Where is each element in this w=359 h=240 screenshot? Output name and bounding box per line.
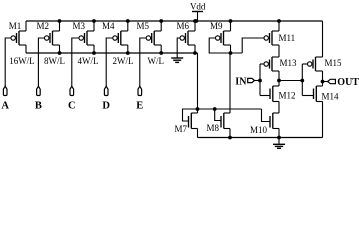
wire Vdd top rail bbox=[26, 20, 323, 22]
svg-text:M1: M1 bbox=[9, 21, 22, 31]
junction IN / inverter-1 input bbox=[258, 79, 262, 83]
transistor M9 (PMOS, diode-connected) bbox=[210, 21, 231, 53]
svg-text:C: C bbox=[68, 101, 76, 112]
wire inverter-2 input line bbox=[302, 64, 313, 96]
svg-text:M9: M9 bbox=[210, 21, 223, 31]
transistor M11 (PMOS mirror) bbox=[264, 21, 295, 45]
wire gate of M4 to input D bbox=[106, 38, 113, 86]
svg-text:Vdd: Vdd bbox=[190, 2, 206, 12]
wire inverter-1 input line bbox=[260, 64, 270, 96]
junction M3 drain / summing rail bbox=[92, 51, 96, 55]
svg-text:M5: M5 bbox=[137, 21, 150, 31]
junction M8 gate / mirror rail bbox=[213, 107, 217, 111]
transistor M2 (PMOS) bbox=[37, 21, 60, 53]
transistor M7 (NMOS, diode-connected) bbox=[175, 113, 198, 138]
junction M3 source / Vdd rail bbox=[92, 19, 96, 23]
transistor M6 (PMOS) bbox=[177, 21, 196, 53]
wire M9 gate-drain loop bbox=[209, 38, 242, 53]
svg-text:D: D bbox=[102, 101, 110, 112]
wire summing-node rail (DAC output) bbox=[26, 52, 198, 54]
junction M5 drain / summing rail bbox=[159, 51, 163, 55]
svg-text:M11: M11 bbox=[279, 33, 296, 43]
transistor M4 (PMOS) bbox=[102, 21, 128, 53]
transistor M5 (PMOS) bbox=[137, 21, 162, 53]
svg-text:E: E bbox=[136, 101, 143, 112]
terminal A bbox=[1, 86, 9, 111]
transistor M3 (PMOS) bbox=[73, 21, 95, 53]
transistor M13 (PMOS, inverter 1) bbox=[264, 57, 297, 81]
junction M7 drain / mirror rail bbox=[196, 107, 200, 111]
junction M10 source / ground rail bbox=[277, 136, 281, 140]
terminal B bbox=[35, 86, 42, 111]
svg-text:A: A bbox=[1, 101, 9, 112]
svg-text:W/L: W/L bbox=[148, 56, 165, 66]
wire gate of M5 to input E bbox=[140, 38, 146, 86]
svg-text:M3: M3 bbox=[73, 21, 86, 31]
junction inverter-2 input tap bbox=[300, 79, 304, 83]
terminal OUT bbox=[323, 77, 359, 88]
svg-text:M7: M7 bbox=[175, 124, 188, 134]
transistor M1 (PMOS) bbox=[9, 21, 26, 53]
svg-text:8W/L: 8W/L bbox=[44, 56, 65, 66]
terminal IN bbox=[235, 76, 260, 87]
junction M11 source / Vdd rail bbox=[277, 19, 281, 23]
wire M9 drain node to M11 gate bbox=[242, 38, 264, 53]
junction M6 source / Vdd rail bbox=[193, 19, 197, 23]
wire gate of M3 to input C bbox=[72, 38, 79, 86]
wire gate of M1 to input A bbox=[5, 38, 11, 86]
svg-text:M15: M15 bbox=[325, 58, 343, 68]
wire gate of M6 to ground bbox=[177, 38, 180, 58]
transistor M15 (PMOS, inverter 2) bbox=[308, 21, 343, 82]
junction M4 drain / summing rail bbox=[126, 51, 130, 55]
junction M6 drain / summing rail bbox=[193, 51, 197, 55]
svg-text:M12: M12 bbox=[279, 91, 296, 101]
svg-text:OUT: OUT bbox=[337, 77, 359, 88]
junction M9 source / Vdd rail bbox=[229, 19, 233, 23]
terminal D bbox=[102, 86, 110, 111]
wire ground rail (sources of M7 M8 M10 M14) bbox=[198, 137, 323, 139]
svg-text:M8: M8 bbox=[207, 123, 220, 133]
value label 8W/L bbox=[44, 56, 65, 66]
wire summing rail down to M7 drain bbox=[197, 53, 199, 113]
svg-text:M2: M2 bbox=[37, 21, 50, 31]
junction Vdd / rail / M6 source bbox=[194, 19, 198, 23]
ground (M6 gate) bbox=[171, 58, 183, 62]
transistor M10 (NMOS mirror) bbox=[250, 113, 279, 138]
wire M10 gate from mirror rail bbox=[262, 109, 271, 122]
transistor M14 (NMOS, inverter 2) bbox=[314, 82, 340, 138]
svg-text:2W/L: 2W/L bbox=[113, 56, 134, 66]
svg-text:4W/L: 4W/L bbox=[78, 56, 99, 66]
svg-text:M4: M4 bbox=[102, 21, 115, 31]
svg-text:M14: M14 bbox=[322, 92, 340, 102]
terminal E bbox=[136, 86, 143, 111]
svg-text:16W/L: 16W/L bbox=[9, 56, 35, 66]
junction M2 source / Vdd rail bbox=[58, 19, 62, 23]
svg-text:B: B bbox=[35, 101, 42, 112]
wire gate of M2 to input B bbox=[38, 38, 44, 86]
terminal C bbox=[68, 86, 76, 111]
value label 2W/L bbox=[113, 56, 134, 66]
svg-text:M6: M6 bbox=[177, 21, 190, 31]
junction M4 source / Vdd rail bbox=[126, 19, 130, 23]
junction M9 drain node bbox=[229, 51, 233, 55]
value label 16W/L bbox=[9, 56, 35, 66]
svg-text:IN: IN bbox=[235, 76, 247, 87]
junction M5 source / Vdd rail bbox=[159, 19, 163, 23]
wire M11 drain to M13 source bbox=[278, 45, 280, 57]
power Vdd bbox=[190, 2, 206, 22]
value label 4W/L bbox=[78, 56, 99, 66]
junction OUT node (M15/M14 drains) bbox=[321, 80, 325, 84]
wire M8 gate tap bbox=[215, 109, 221, 121]
svg-text:M13: M13 bbox=[280, 58, 298, 68]
junction inverter-1 output (M13/M12 drains) bbox=[277, 79, 281, 83]
junction M8 source / ground rail bbox=[228, 136, 232, 140]
transistor M8 (NMOS mirror) bbox=[207, 53, 231, 138]
value label W/L bbox=[148, 56, 165, 66]
transistor M12 (NMOS, inverter 1) bbox=[270, 81, 296, 114]
wire inverter-1 output to inverter-2 input bbox=[279, 80, 302, 82]
svg-text:M10: M10 bbox=[250, 125, 268, 135]
wire M7 gate loop / mirror gate rail bbox=[183, 109, 262, 121]
junction M2 drain / summing rail bbox=[58, 51, 62, 55]
ground (main) bbox=[273, 138, 285, 149]
